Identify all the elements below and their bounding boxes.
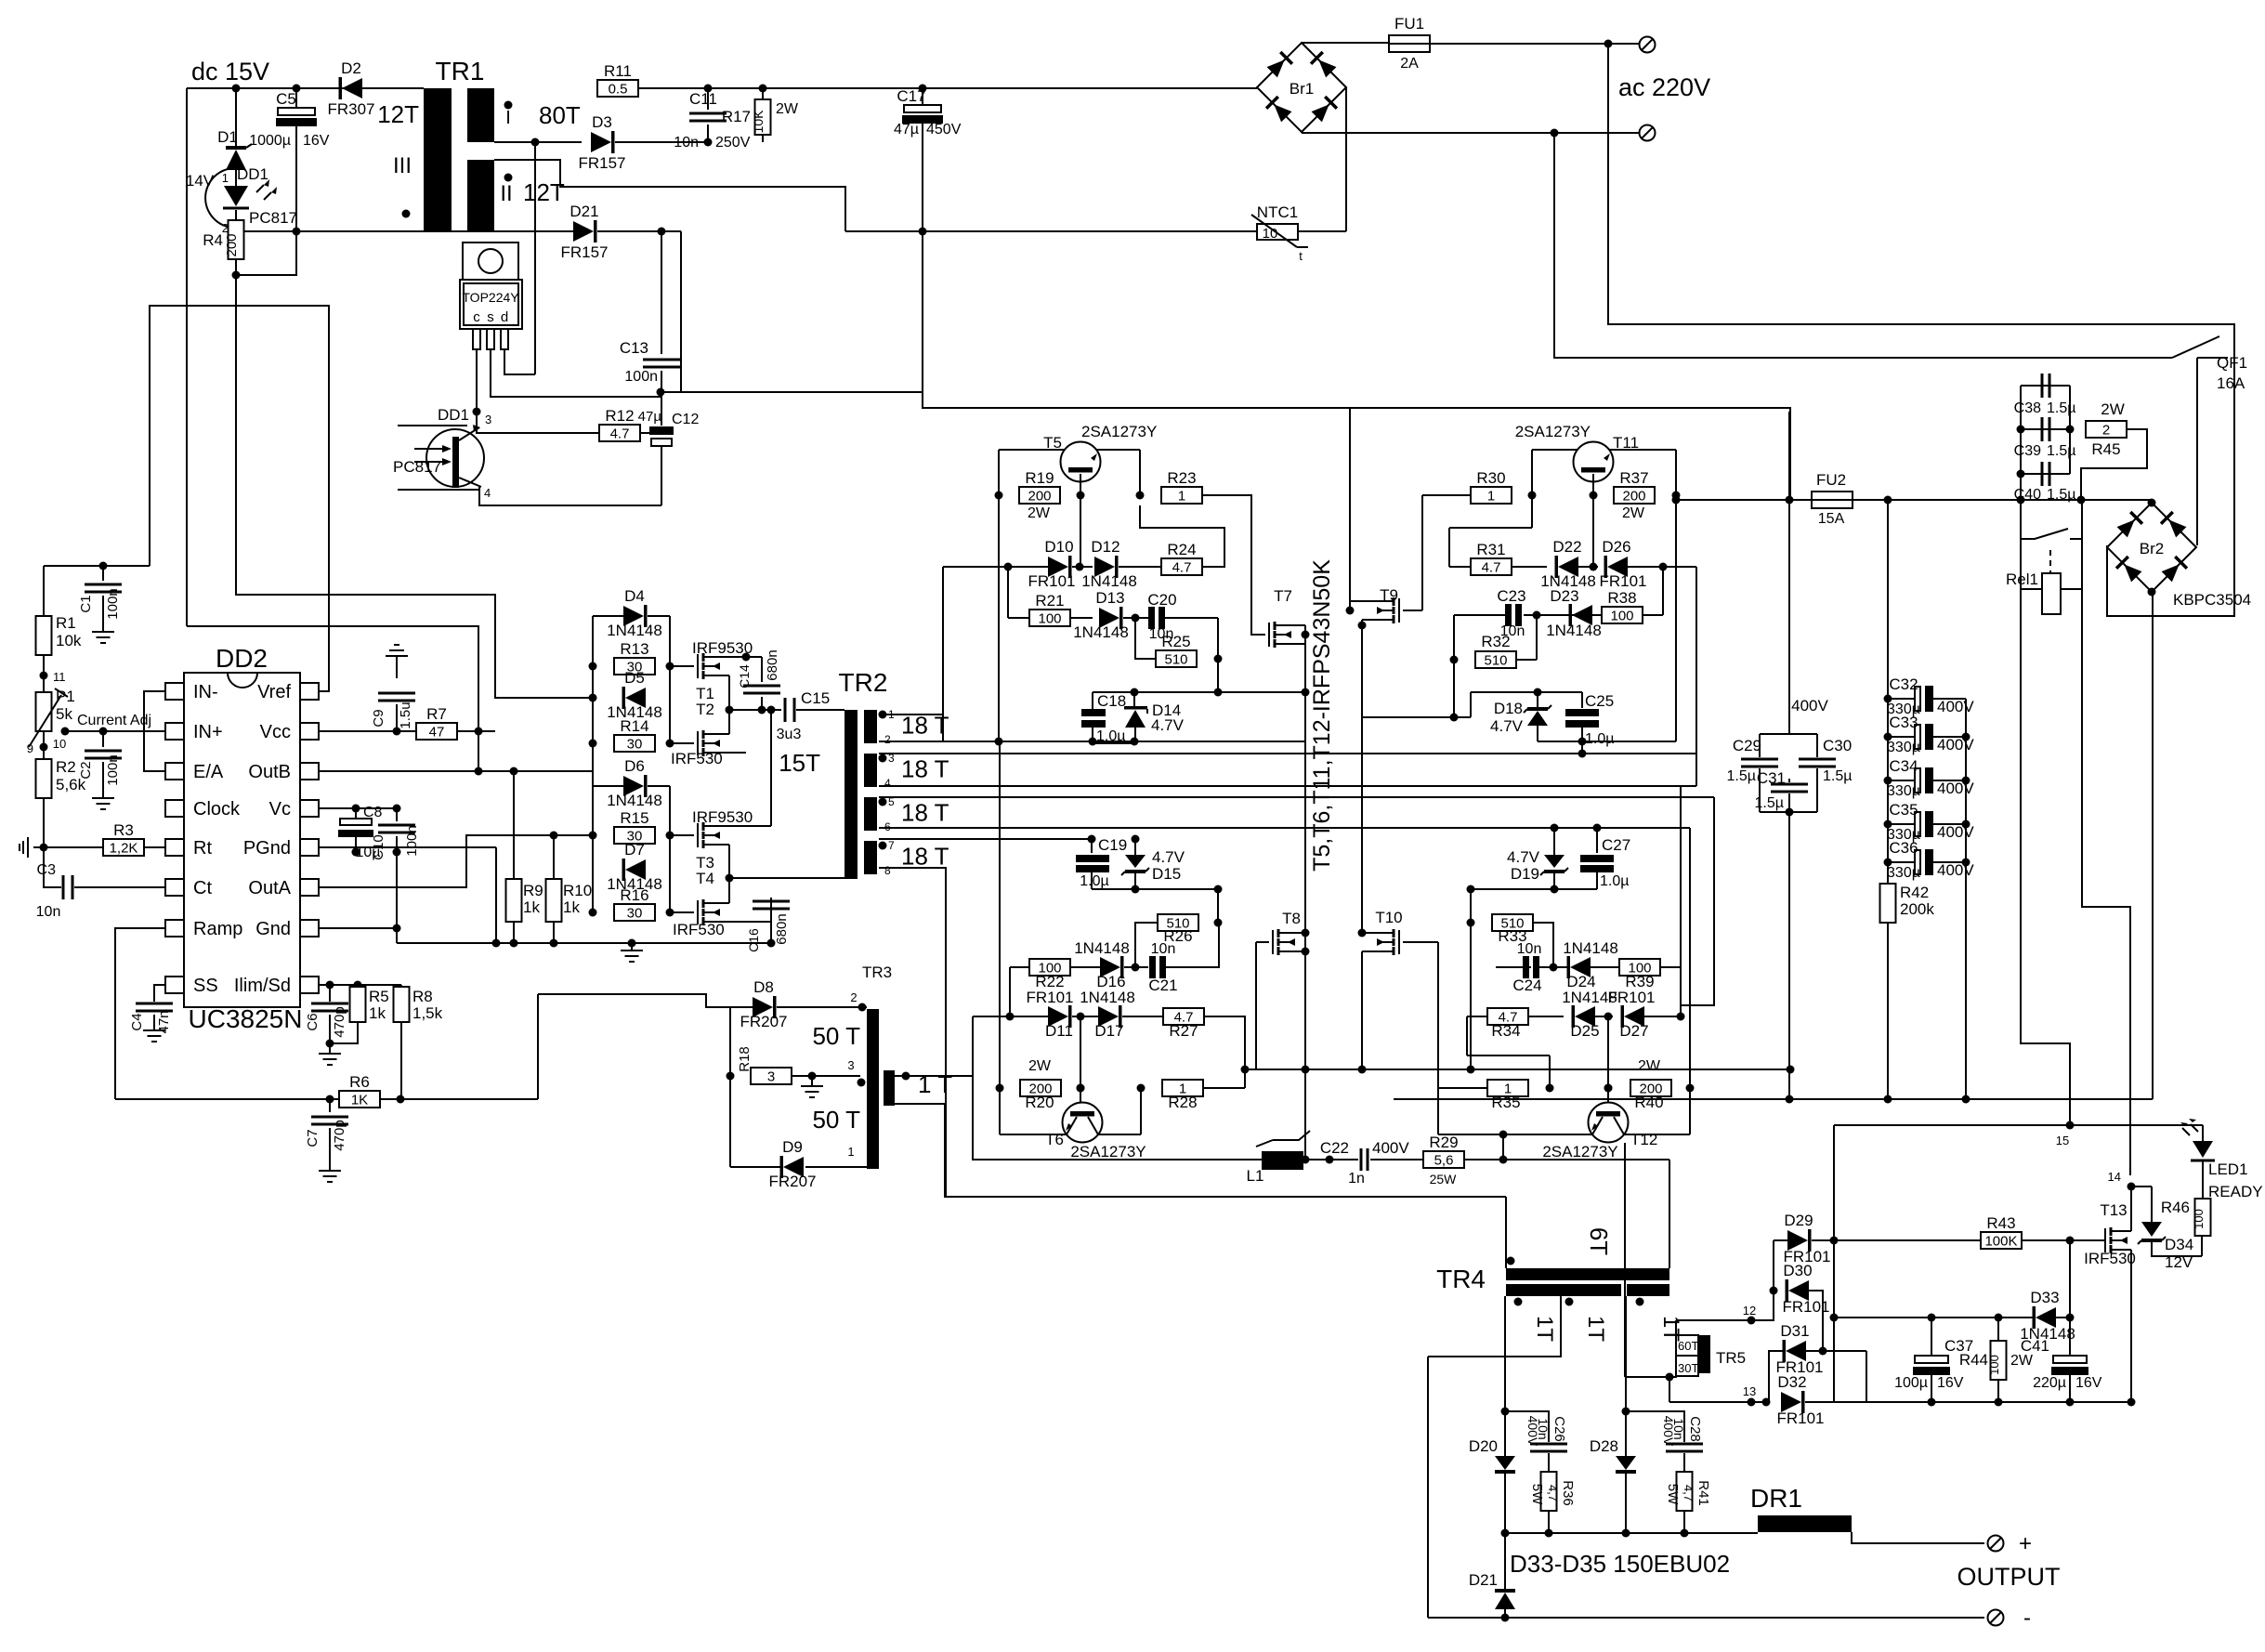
svg-text:R13: R13 — [620, 640, 648, 658]
junction dc15V D1 — [232, 85, 241, 93]
svg-text:18 T: 18 T — [901, 755, 949, 783]
wire cell R21 row — [1008, 617, 1029, 619]
resistor R11 — [597, 80, 638, 97]
capacitor C39 — [2042, 417, 2049, 441]
svg-text:T2: T2 — [696, 701, 714, 718]
svg-text:T10: T10 — [1375, 909, 1402, 926]
svg-text:D3: D3 — [592, 113, 612, 131]
junction 957 R26 — [1214, 885, 1223, 894]
junction R6 right — [397, 1095, 405, 1104]
wire C14 bottom — [761, 697, 763, 710]
IC DD2 pin OutA — [300, 879, 319, 896]
wire D3 to C11 — [615, 141, 708, 143]
transformer TR1 secondary bars — [467, 88, 494, 142]
wire T3T4 mid — [728, 845, 730, 903]
svg-text:200: 200 — [1028, 489, 1051, 505]
svg-text:R43: R43 — [1986, 1214, 2015, 1232]
wire TR2 pin4 rail — [879, 785, 1696, 787]
junction C28 tee — [1622, 1408, 1630, 1416]
wire R26 right riser — [1217, 889, 1219, 923]
wire mid to C15 — [729, 709, 781, 711]
svg-text:47µ: 47µ — [894, 122, 919, 138]
wire C2 drop — [102, 731, 104, 747]
svg-text:T12: T12 — [1630, 1131, 1657, 1148]
resistor R23 — [1161, 487, 1202, 504]
wire TR4 1Tb — [1428, 1296, 1561, 1357]
svg-text:100K: 100K — [1984, 1234, 2017, 1250]
optocoupler DD1 LED diode — [224, 186, 248, 206]
junction R15 right — [666, 832, 674, 840]
resistor R5 — [350, 987, 366, 1022]
svg-text:Ct: Ct — [193, 878, 212, 898]
wire Vref loop — [150, 306, 329, 691]
transistor T12 — [1589, 1103, 1629, 1143]
svg-text:-: - — [2023, 1606, 2031, 1631]
svg-text:D11: D11 — [1045, 1022, 1073, 1040]
junction T8 source — [1302, 948, 1310, 956]
svg-text:IN+: IN+ — [193, 722, 223, 742]
svg-text:1.0µ: 1.0µ — [1096, 728, 1125, 744]
wire C11 bottom — [707, 125, 709, 142]
svg-text:10k: 10k — [56, 632, 82, 649]
svg-text:C32: C32 — [1889, 675, 1918, 693]
wire D1 anode — [235, 88, 237, 146]
wire node15 left rail — [1834, 1125, 1866, 1402]
svg-text:1N4148: 1N4148 — [1563, 939, 1618, 957]
svg-text:D1: D1 — [217, 128, 238, 146]
junction T9 drain — [1346, 607, 1355, 615]
IC DD2 pin IN- — [165, 683, 184, 700]
svg-text:1N4148: 1N4148 — [607, 792, 662, 809]
junction R18 left — [727, 1072, 735, 1081]
svg-text:2W: 2W — [1638, 1058, 1661, 1074]
optocoupler DD1 phototransistor base bar — [452, 437, 459, 488]
junction TR5 pin12 — [1748, 1317, 1756, 1325]
svg-text:C6: C6 — [305, 1013, 321, 1030]
diode D30 — [1788, 1280, 1809, 1301]
svg-text:10n: 10n — [674, 135, 699, 151]
svg-text:1.0µ: 1.0µ — [1080, 873, 1108, 889]
wire C1 drop — [102, 566, 104, 581]
wire C7 gnd — [329, 1128, 331, 1163]
wire C26 to R36 — [1548, 1453, 1550, 1472]
mosfet T7 — [1268, 623, 1270, 647]
junction plus rail C31 — [1786, 1095, 1794, 1104]
wire R10 top — [553, 835, 555, 879]
wire C38 chain left — [2020, 386, 2022, 539]
resistor R6 — [339, 1091, 380, 1108]
wire D18 C25 bottom — [1538, 741, 1676, 742]
svg-text:50 T: 50 T — [812, 1106, 860, 1134]
wire D25-D27 — [1595, 1016, 1613, 1017]
wire T1T2 mid — [728, 675, 730, 734]
svg-text:250V: 250V — [715, 135, 751, 151]
svg-text:C3: C3 — [37, 862, 57, 878]
polarity dot TR2 pin3 — [879, 754, 887, 763]
junction C10 top — [393, 805, 401, 813]
svg-text:30T: 30T — [1678, 1361, 1698, 1375]
svg-text:0.5: 0.5 — [609, 82, 628, 98]
wire middle rail — [1245, 1069, 1790, 1070]
svg-text:D15: D15 — [1152, 865, 1181, 883]
wire Rel1 left down — [2021, 589, 2070, 1124]
wire pin13 row — [1669, 1401, 1766, 1403]
svg-text:8: 8 — [884, 864, 891, 877]
svg-text:4,7: 4,7 — [1682, 1485, 1695, 1501]
svg-text:IRF530: IRF530 — [671, 750, 723, 767]
junction C6 — [326, 981, 334, 990]
choke DR1 — [1758, 1515, 1852, 1532]
svg-text:4.7V: 4.7V — [1507, 848, 1540, 866]
wire D21b bottom — [1504, 1609, 1506, 1618]
svg-text:3: 3 — [767, 1069, 775, 1085]
polarity dot TR1 II — [504, 174, 513, 182]
svg-text:DD2: DD2 — [216, 644, 268, 673]
svg-text:R20: R20 — [1025, 1094, 1054, 1111]
wire D4 left — [593, 615, 623, 617]
svg-text:5W: 5W — [1529, 1484, 1545, 1505]
resistor R22 — [1029, 959, 1070, 976]
svg-text:D22: D22 — [1552, 538, 1581, 556]
wire Vcc to R7 — [319, 730, 418, 732]
resistor R42 — [1880, 884, 1896, 923]
svg-text:13: 13 — [1743, 1384, 1756, 1398]
wire D1 to DD1 LED — [235, 170, 237, 186]
svg-text:R30: R30 — [1476, 469, 1505, 487]
svg-text:1,2K: 1,2K — [110, 841, 138, 857]
svg-text:FU1: FU1 — [1394, 15, 1424, 33]
svg-text:470p: 470p — [332, 1006, 347, 1037]
wire C column left rail — [1887, 699, 1889, 885]
svg-text:Rt: Rt — [193, 838, 212, 859]
resistor R33 — [1492, 914, 1533, 931]
resistor R39 — [1619, 959, 1660, 976]
svg-text:TR4: TR4 — [1436, 1265, 1486, 1293]
capacitor C13 — [643, 360, 680, 367]
junction rail T7 — [1302, 688, 1310, 697]
junction T8 drain — [1302, 929, 1310, 937]
wire rail to C3 — [44, 847, 61, 887]
wire C27 bottom row — [1471, 888, 1597, 890]
diode D12 — [1094, 557, 1115, 577]
resistor R10 — [546, 879, 562, 922]
diode D7 — [625, 859, 646, 880]
svg-text:QF1: QF1 — [2217, 354, 2247, 372]
junction C18 D14 pin2 — [1089, 738, 1097, 746]
wire R14 to T2 gate — [670, 742, 694, 744]
wire top C1 rail — [44, 565, 150, 567]
junction node 15 — [2066, 1121, 2075, 1130]
wire C3 to Ct — [74, 886, 165, 888]
svg-text:2W: 2W — [2101, 400, 2125, 418]
wire cell left rail T6 — [999, 741, 1001, 1088]
svg-text:D10: D10 — [1044, 538, 1073, 556]
wire C19 drop — [1091, 839, 1093, 853]
junction R13 right — [666, 662, 674, 671]
svg-text:6T: 6T — [1585, 1227, 1613, 1255]
wire R33 right loop — [1533, 923, 1553, 967]
svg-text:Current Adj: Current Adj — [77, 713, 151, 728]
svg-text:C25: C25 — [1585, 692, 1614, 710]
wire C37 drop — [1931, 1318, 1932, 1356]
resistor R15 — [614, 827, 655, 844]
wire R32 rail drop — [1453, 660, 1455, 717]
junction rail R9 — [510, 939, 518, 948]
svg-text:100: 100 — [1610, 609, 1633, 624]
junction ac bottom — [1551, 129, 1559, 138]
IC DD2 pin Ilim/Sd — [300, 977, 319, 993]
wire T9 leads — [1350, 601, 1380, 625]
junction PGnd C10 — [393, 848, 401, 857]
svg-text:R1: R1 — [56, 614, 76, 632]
svg-text:200: 200 — [224, 233, 240, 256]
wire D4 right — [648, 615, 670, 617]
resistor R25 — [1156, 650, 1197, 667]
circuit breaker QF1 — [2172, 336, 2228, 545]
svg-text:C14: C14 — [737, 664, 752, 688]
svg-text:3: 3 — [485, 413, 491, 426]
svg-text:1.5µ: 1.5µ — [2047, 443, 2075, 459]
svg-text:1.5u: 1.5u — [398, 701, 413, 728]
mosfet T3 — [697, 823, 699, 847]
svg-text:Gnd: Gnd — [255, 919, 291, 939]
wire C10 bottom — [396, 836, 398, 852]
junction rail D28 — [1622, 1529, 1630, 1538]
wire R15 to T3 gate — [670, 834, 694, 836]
wire R17 top — [762, 88, 764, 100]
junction C8 top — [352, 805, 360, 813]
wire C6 drop — [329, 985, 331, 1002]
IC TOP224Y body — [460, 280, 522, 329]
wire driver bottom rail — [397, 942, 771, 944]
svg-text:D18: D18 — [1494, 700, 1523, 717]
svg-text:D29: D29 — [1784, 1212, 1813, 1229]
svg-text:D12: D12 — [1091, 538, 1119, 556]
wire C29 C30 top — [1760, 733, 1817, 735]
svg-text:OutA: OutA — [248, 878, 291, 898]
diode D17 — [1098, 1006, 1119, 1027]
wire C30 bottom — [1816, 768, 1818, 812]
svg-text:10n: 10n — [36, 904, 61, 920]
svg-text:12: 12 — [1743, 1304, 1756, 1318]
resistor R44 — [1991, 1341, 2007, 1380]
wire R29 to TR4 — [1503, 1159, 1669, 1160]
resistor R41 — [1677, 1472, 1693, 1511]
junction T13 gnd — [2128, 1398, 2136, 1407]
svg-text:2W: 2W — [776, 101, 799, 117]
IC TOP224Y tab — [463, 243, 518, 280]
svg-text:Ilim/Sd: Ilim/Sd — [234, 976, 291, 996]
resistor R20 — [1020, 1080, 1061, 1096]
diode D31 — [1786, 1341, 1806, 1361]
mosfet T9 — [1398, 598, 1400, 623]
svg-text:FR101: FR101 — [1026, 989, 1073, 1006]
wire D11-D17 — [1072, 1016, 1098, 1017]
svg-text:7: 7 — [888, 839, 895, 852]
wire Rel1 right branch — [2061, 539, 2130, 1175]
junction plus rail C col — [1962, 1095, 1970, 1104]
wire D32 right — [1805, 1401, 1866, 1403]
wire D10 row — [943, 566, 1048, 568]
svg-text:100: 100 — [2192, 1209, 2206, 1229]
wire R1 to P1 — [43, 655, 45, 692]
wire D33 right — [2056, 1317, 2070, 1318]
svg-text:P1: P1 — [56, 688, 75, 705]
svg-text:R23: R23 — [1167, 469, 1196, 487]
LED LED1 — [2193, 1141, 2213, 1158]
wire C2 gnd — [102, 762, 104, 791]
thermistor NTC1 — [1257, 224, 1298, 240]
wire relay contact — [2021, 500, 2082, 539]
resistor R21 — [1029, 610, 1070, 626]
wire TR3 left rail — [729, 1007, 731, 1167]
junction R35 right — [1546, 1084, 1554, 1093]
svg-text:TR2: TR2 — [839, 668, 888, 697]
wire R40 right rail — [1689, 828, 1691, 1088]
wire 1Tb to minus rail — [1427, 1357, 1429, 1618]
wire TR2 pin8 riser — [879, 868, 946, 1197]
svg-text:D5: D5 — [624, 669, 645, 687]
wire D21 to corner — [597, 230, 681, 232]
svg-text:18 T: 18 T — [901, 843, 949, 871]
resistor R35 — [1487, 1080, 1528, 1096]
svg-text:IRF9530: IRF9530 — [692, 808, 753, 826]
wire C29 rail top — [1788, 412, 1790, 500]
svg-text:1.0µ: 1.0µ — [1600, 873, 1629, 889]
svg-text:2A: 2A — [1400, 56, 1419, 72]
junction D13 C20 — [1132, 614, 1140, 623]
capacitor C24 — [1523, 956, 1529, 978]
svg-text:47µ: 47µ — [638, 409, 662, 425]
svg-text:C22: C22 — [1320, 1139, 1349, 1157]
wire C15 right — [796, 709, 844, 711]
junction R25 right — [1214, 655, 1223, 663]
terminal output minus — [1988, 1610, 2004, 1626]
svg-text:T13: T13 — [2100, 1201, 2127, 1219]
junction rail gnd — [628, 939, 636, 948]
wire C29 bottom — [1759, 768, 1761, 812]
svg-text:DD1: DD1 — [438, 406, 469, 424]
wire C39 mid — [2021, 428, 2070, 430]
wire R22 row — [1010, 966, 1029, 968]
capacitor C31 — [1771, 784, 1808, 792]
wire D10 to R21 — [1007, 567, 1009, 618]
ground Rt — [20, 837, 44, 858]
wire node15 top — [1834, 1124, 2203, 1126]
wire PGnd down — [495, 847, 497, 943]
wire R41 bottom — [1683, 1511, 1685, 1533]
junction C36 right — [1962, 859, 1970, 867]
svg-text:Vc: Vc — [269, 799, 291, 819]
wire C34 right — [1933, 780, 1966, 781]
junction R44 gnd — [1995, 1398, 2003, 1407]
svg-text:1: 1 — [1487, 489, 1495, 505]
svg-text:D13: D13 — [1095, 589, 1124, 607]
resistor R45 — [2086, 421, 2127, 438]
svg-text:C29: C29 — [1733, 737, 1761, 754]
junction D11 D17 — [1077, 1013, 1085, 1021]
wire TR2 pin7 rail — [879, 838, 1092, 840]
svg-text:C1: C1 — [78, 595, 94, 612]
wire D6 left rail — [592, 786, 594, 912]
svg-text:R29: R29 — [1429, 1134, 1458, 1151]
svg-text:FR101: FR101 — [1607, 989, 1655, 1006]
junction Gnd rail — [393, 924, 401, 933]
junction R14 right — [666, 740, 674, 748]
svg-text:D21: D21 — [570, 203, 598, 220]
diode D9 — [783, 1157, 804, 1177]
wire FU2 to Br2 — [1853, 499, 2152, 501]
inductor L1 — [1262, 1151, 1303, 1170]
junction PGnd C8 — [352, 848, 360, 857]
svg-text:1,5k: 1,5k — [412, 1004, 443, 1022]
wire R44 bottom — [1997, 1380, 1999, 1402]
resistor R30 — [1471, 487, 1512, 504]
wire R25 left — [1135, 618, 1156, 659]
junction R26 right — [1214, 919, 1223, 927]
junction R40 right — [1686, 1084, 1695, 1093]
svg-text:D33: D33 — [2030, 1289, 2059, 1306]
wire R28 right riser — [1203, 1087, 1245, 1089]
wire T10 leads — [1362, 933, 1380, 951]
svg-text:1.5µ: 1.5µ — [2047, 400, 2075, 416]
capacitor C7 — [311, 1117, 348, 1124]
wire TOP224Y s lead — [491, 349, 661, 397]
wire Br1 top to FU1 — [1302, 42, 1389, 44]
svg-text:10n: 10n — [1671, 1418, 1686, 1439]
wire D13 to C20 — [1123, 617, 1148, 619]
wire T11 left lead — [1532, 450, 1578, 495]
svg-text:C19: C19 — [1098, 836, 1127, 854]
IC TOP224Y pins — [473, 329, 480, 349]
wire C28 to R41 — [1683, 1453, 1685, 1472]
capacitor C27 thick — [1580, 855, 1614, 862]
wire C5 bottom to TR1 — [295, 130, 297, 231]
wire R43 right — [2022, 1239, 2105, 1241]
wire left rail to Vcc — [187, 626, 478, 731]
svg-text:TR1: TR1 — [436, 57, 485, 85]
capacitor C14 — [743, 686, 780, 693]
capacitor C36 — [1915, 850, 1920, 874]
junction bus L1 row — [1302, 1156, 1310, 1164]
diode D13 — [1099, 608, 1119, 628]
junction 957 left — [1467, 885, 1475, 894]
svg-text:t: t — [1299, 249, 1303, 263]
wire D11 feed — [972, 1016, 974, 1076]
svg-text:D28: D28 — [1590, 1437, 1618, 1455]
wire TR3 1T top lead — [895, 1076, 1274, 1160]
capacitor C17 electrolytic — [904, 105, 941, 112]
capacitor C10 — [378, 825, 415, 833]
svg-text:FR307: FR307 — [327, 100, 374, 118]
wire D31 left loop — [1769, 1351, 1784, 1402]
junction C40 left — [2017, 470, 2025, 479]
svg-text:TR5: TR5 — [1716, 1349, 1746, 1367]
wire D19 stub — [1553, 871, 1555, 889]
svg-text:R9: R9 — [523, 882, 543, 899]
wire C21 right loop — [1166, 923, 1219, 967]
junction C32 left — [1884, 695, 1892, 703]
junction C11 bottom — [704, 138, 713, 147]
diode D32 — [1781, 1392, 1801, 1412]
wire C column right rail — [1965, 699, 1967, 1099]
svg-text:d: d — [501, 309, 508, 325]
junction 957 D19 — [1551, 885, 1559, 894]
fuse FU2 — [1812, 492, 1853, 508]
capacitor C2 — [85, 751, 122, 758]
wire D24 to R39 — [1591, 966, 1620, 968]
diode D10 — [1048, 557, 1068, 577]
